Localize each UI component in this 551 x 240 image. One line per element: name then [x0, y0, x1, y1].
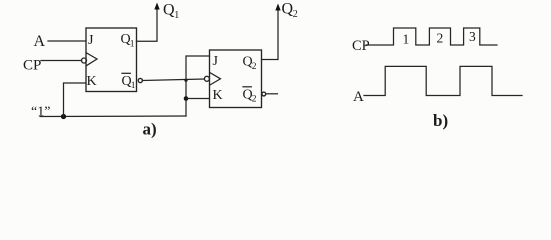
svg-text:1: 1 [403, 32, 410, 47]
arrowhead Q2 [275, 4, 280, 11]
svg-text:3: 3 [469, 29, 476, 44]
clock triangle U1 [87, 53, 97, 66]
wire Q2-bar stub [266, 93, 278, 95]
svg-text:CP: CP [23, 58, 41, 74]
wire Q1 output up [137, 7, 158, 41]
wire Q1-bar to FF2 clock [142, 79, 204, 81]
flip-flop U1 box [86, 28, 137, 92]
svg-text:Q: Q [163, 2, 175, 19]
clock triangle U2 [210, 73, 220, 85]
output bubble on Q2-bar [262, 92, 266, 96]
svg-text:1: 1 [174, 10, 179, 21]
wire constant-1 up to K1 [64, 83, 87, 117]
svg-text:1: 1 [130, 40, 135, 50]
svg-text:“1”: “1” [31, 105, 50, 120]
junction dot K2 branch [184, 96, 189, 101]
svg-text:K: K [87, 74, 97, 89]
wire A to J1 [48, 40, 86, 42]
svg-text:2: 2 [252, 62, 257, 72]
waveform CP trace [366, 28, 497, 45]
svg-text:a): a) [143, 120, 157, 139]
svg-text:2: 2 [252, 95, 257, 105]
svg-text:2: 2 [293, 9, 298, 20]
wire constant-1 up to J2 [186, 56, 210, 116]
svg-text:J: J [213, 54, 219, 69]
svg-text:b): b) [433, 111, 448, 130]
junction blob at crossing [184, 79, 187, 82]
svg-text:2: 2 [437, 31, 444, 46]
svg-text:CP: CP [352, 38, 370, 54]
waveform A trace [364, 66, 522, 95]
wire constant-1 bottom run [40, 115, 186, 118]
output bubble on Q1-bar [138, 78, 142, 82]
wire Q2 output up [262, 8, 279, 60]
svg-text:A: A [353, 89, 364, 105]
arrowhead Q1 [154, 3, 159, 10]
clock bubble FF2 [204, 76, 209, 81]
junction dot on constant-1 wire [61, 114, 66, 119]
svg-text:Q: Q [282, 1, 294, 18]
clock bubble FF1 [82, 58, 87, 63]
flip-flop U2 box [210, 50, 262, 108]
wire CP to FF1 clock [41, 60, 82, 62]
svg-text:K: K [213, 88, 223, 103]
svg-text:J: J [88, 33, 94, 48]
wire to K2 [186, 98, 210, 100]
svg-text:1: 1 [131, 81, 136, 91]
svg-text:A: A [34, 33, 46, 50]
